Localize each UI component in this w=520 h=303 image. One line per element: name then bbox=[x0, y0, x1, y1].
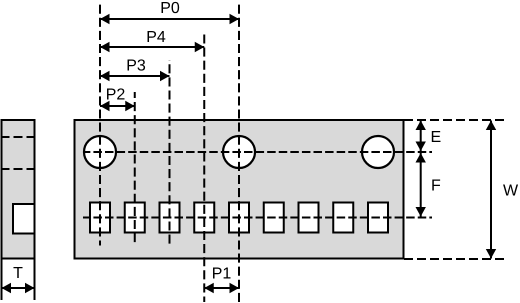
main rail body bbox=[75, 120, 404, 259]
mounting slot square 8 bbox=[333, 203, 353, 233]
dimension W bbox=[490, 121, 492, 259]
centerline at fifth slot / second hole bbox=[238, 4, 240, 302]
top edge extension dashed bbox=[404, 119, 506, 121]
square row centerline bbox=[83, 217, 432, 219]
side view body bbox=[2, 120, 35, 259]
dimension P3 bbox=[100, 75, 170, 77]
centerline at second slot bbox=[134, 92, 136, 246]
label T bbox=[13, 267, 22, 278]
mounting slot square 4 bbox=[194, 203, 214, 233]
T extension line right bbox=[34, 259, 36, 301]
label P1 bbox=[213, 267, 230, 278]
counterbore hole circle 3 bbox=[362, 136, 394, 168]
counterbore hole circle 2 bbox=[223, 136, 255, 168]
centerline at fourth slot bbox=[203, 32, 205, 302]
centerline at third slot bbox=[169, 60, 171, 246]
label E bbox=[432, 131, 441, 142]
side view hidden hole line bottom bbox=[3, 168, 34, 170]
mounting slot square 1 bbox=[90, 203, 110, 233]
label P4 bbox=[148, 31, 166, 42]
bottom edge extension dashed bbox=[404, 258, 506, 260]
label W bbox=[503, 184, 518, 195]
T extension line left bbox=[1, 259, 3, 301]
mounting slot square 5 bbox=[229, 203, 249, 233]
centerline at first hole bbox=[99, 4, 101, 246]
circle row centerline bbox=[83, 151, 432, 153]
dimension F bbox=[420, 153, 422, 217]
mounting slot square 3 bbox=[160, 203, 180, 233]
dimension P0 bbox=[100, 18, 239, 20]
dimension P4 bbox=[100, 46, 204, 48]
mounting slot square 2 bbox=[125, 203, 145, 233]
dimension P1 bbox=[204, 287, 239, 289]
counterbore hole circle 1 bbox=[84, 136, 116, 168]
mounting slot square 9 bbox=[368, 203, 388, 233]
label P2 bbox=[107, 88, 124, 99]
mounting slot square 7 bbox=[299, 203, 319, 233]
dimension T bbox=[2, 287, 35, 289]
mounting slot square 6 bbox=[264, 203, 284, 233]
label F bbox=[432, 179, 440, 190]
dimension P2 bbox=[100, 105, 135, 107]
side view square slot bbox=[13, 204, 35, 234]
side view hidden hole line top bbox=[3, 136, 34, 138]
dimension E bbox=[420, 121, 422, 152]
label P0 bbox=[162, 2, 180, 13]
label P3 bbox=[128, 59, 146, 70]
